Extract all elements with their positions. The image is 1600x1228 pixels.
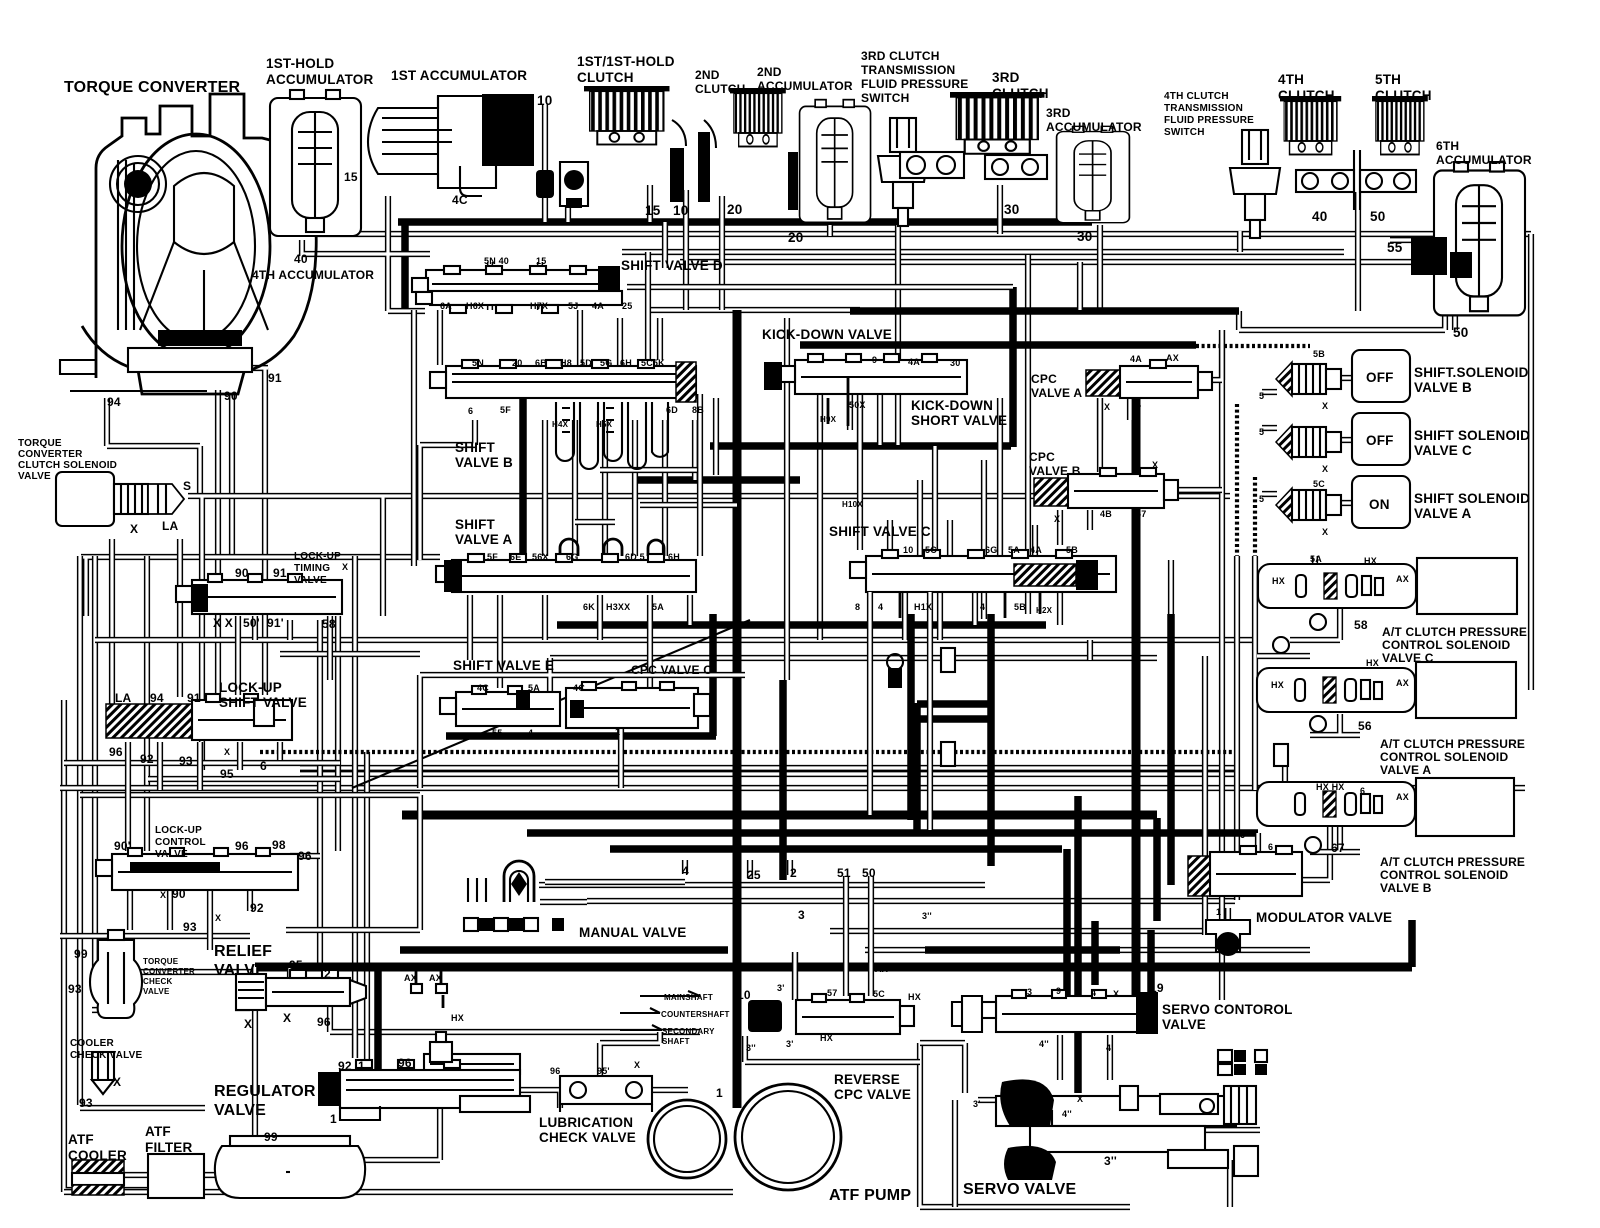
at clutch pressure control solenoid valve A box	[1416, 662, 1516, 718]
svg-text:CPC VALVE: CPC VALVE	[834, 1087, 911, 1102]
svg-text:1: 1	[716, 1086, 723, 1100]
svg-text:1: 1	[1216, 907, 1221, 917]
mainshaft arrows	[620, 991, 700, 1030]
relief valve	[236, 970, 366, 1010]
svg-text:CONTROL SOLENOID: CONTROL SOLENOID	[1380, 868, 1508, 882]
svg-text:H1X: H1X	[914, 602, 932, 612]
svg-text:LUBRICATION: LUBRICATION	[539, 1115, 633, 1130]
svg-text:94: 94	[150, 691, 164, 705]
svg-text:VALVE: VALVE	[155, 849, 188, 860]
svg-text:6A: 6A	[440, 301, 452, 311]
svg-text:2ND: 2ND	[695, 68, 720, 82]
wire thick trunk verticals	[378, 394, 523, 1078]
svg-text:X: X	[1054, 514, 1060, 524]
svg-text:91: 91	[187, 691, 201, 705]
svg-text:5B: 5B	[1014, 602, 1026, 612]
svg-text:X: X	[244, 1017, 252, 1031]
svg-text:VALVE A: VALVE A	[1414, 506, 1471, 521]
svg-text:90: 90	[172, 887, 186, 901]
at clutch pressure control solenoid valve A body	[1257, 668, 1415, 712]
svg-text:2: 2	[790, 866, 797, 880]
svg-text:4A: 4A	[1030, 545, 1042, 555]
svg-text:HX: HX	[1364, 556, 1377, 566]
svg-text:AX: AX	[1166, 353, 1179, 363]
svg-text:93: 93	[68, 982, 82, 996]
wire shift valve A drops	[470, 595, 690, 688]
svg-text:4TH ACCUMULATOR: 4TH ACCUMULATOR	[252, 268, 374, 282]
svg-text:AX: AX	[1396, 678, 1409, 688]
svg-text:TRANSMISSION: TRANSMISSION	[861, 63, 955, 77]
svg-text:91: 91	[273, 566, 287, 580]
svg-text:40: 40	[1312, 209, 1327, 224]
cpc valve C spool	[566, 682, 710, 728]
svg-text:6G: 6G	[985, 545, 997, 555]
svg-text:15: 15	[645, 203, 661, 218]
svg-text:VALVE B: VALVE B	[1414, 380, 1472, 395]
svg-text:REVERSE: REVERSE	[834, 1072, 900, 1087]
svg-text:6K: 6K	[583, 602, 595, 612]
svg-text:H10X: H10X	[842, 500, 863, 509]
svg-text:4C: 4C	[477, 683, 489, 693]
svg-text:CLUTCH SOLENOID: CLUTCH SOLENOID	[18, 460, 117, 471]
svg-text:6: 6	[468, 406, 473, 416]
svg-text:CPC VALVE C: CPC VALVE C	[631, 663, 712, 677]
svg-text:6D 5: 6D 5	[625, 552, 645, 562]
svg-text:COOLER: COOLER	[70, 1038, 115, 1049]
wire shift valve C risers	[890, 480, 1060, 640]
svg-text:3'': 3''	[746, 1043, 756, 1053]
lubrication check valve	[560, 1076, 652, 1112]
svg-text:5A: 5A	[1310, 554, 1322, 564]
svg-text:SWITCH: SWITCH	[861, 91, 910, 105]
shift valve B spool	[430, 360, 696, 402]
svg-text:X: X	[1322, 527, 1328, 537]
svg-text:X: X	[1322, 401, 1328, 411]
svg-text:10: 10	[737, 988, 751, 1002]
svg-text:4: 4	[528, 728, 533, 738]
svg-text:90': 90'	[114, 839, 131, 853]
svg-text:VALVE B: VALVE B	[1029, 464, 1081, 478]
svg-text:H4X: H4X	[552, 420, 569, 429]
svg-text:H3XX: H3XX	[606, 602, 630, 612]
atf filter	[148, 1154, 204, 1198]
svg-text:CONVERTER: CONVERTER	[18, 449, 83, 460]
wire thick trunk horizontals	[400, 311, 1258, 950]
svg-text:VALVE C: VALVE C	[1414, 443, 1472, 458]
svg-text:H6X: H6X	[466, 301, 484, 311]
svg-text:FLUID PRESSURE: FLUID PRESSURE	[1164, 115, 1254, 126]
svg-text:5J: 5J	[568, 301, 578, 311]
svg-text:4TH CLUTCH: 4TH CLUTCH	[1164, 91, 1229, 102]
svg-text:VALVE: VALVE	[214, 962, 266, 979]
svg-text:5A: 5A	[1008, 545, 1020, 555]
svg-text:91: 91	[268, 371, 282, 385]
wire valve B-A step links	[575, 470, 737, 522]
svg-text:5B: 5B	[1066, 545, 1078, 555]
svg-text:93: 93	[179, 754, 193, 768]
svg-text:6: 6	[1240, 830, 1245, 840]
svg-text:TORQUE CONVERTER: TORQUE CONVERTER	[64, 79, 240, 96]
accumulator 1st-hold	[270, 90, 361, 236]
svg-text:99: 99	[264, 1130, 278, 1144]
svg-text:SHIFT SOLENOID: SHIFT SOLENOID	[1414, 428, 1530, 443]
wire cpc connections	[1060, 330, 1352, 545]
modulator valve	[1188, 846, 1302, 956]
wire lockup region horizontals	[64, 654, 420, 930]
svg-text:H2X: H2X	[1036, 606, 1053, 615]
wire long y557 line	[81, 556, 440, 616]
svg-text:SERVO CONTOROL: SERVO CONTOROL	[1162, 1002, 1293, 1017]
svg-text:15: 15	[344, 170, 358, 184]
svg-text:VALVE B: VALVE B	[455, 455, 513, 470]
svg-text:CHECK VALVE: CHECK VALVE	[539, 1130, 636, 1145]
clutch 5th	[1372, 96, 1428, 155]
svg-text:56: 56	[1358, 719, 1372, 733]
svg-text:91': 91'	[267, 616, 284, 630]
shift solenoid valve B	[1276, 350, 1410, 402]
wire mid risers extra	[414, 252, 1100, 680]
svg-text:CLUTCH: CLUTCH	[695, 82, 746, 96]
svg-text:LOCK-UP: LOCK-UP	[294, 551, 341, 562]
torque converter check valve	[90, 930, 142, 1018]
2nd clutch piston streak	[788, 152, 798, 210]
svg-text:95': 95'	[597, 1066, 610, 1076]
torque converter clutch solenoid valve	[56, 472, 184, 526]
svg-text:5: 5	[1259, 427, 1264, 437]
svg-text:55: 55	[1387, 240, 1403, 255]
svg-text:50X: 50X	[849, 400, 866, 410]
svg-text:9: 9	[1056, 986, 1061, 996]
svg-text:5B: 5B	[1313, 349, 1325, 359]
svg-text:5F: 5F	[487, 552, 498, 562]
svg-text:5: 5	[1259, 391, 1264, 401]
svg-text:VALVE A: VALVE A	[1031, 386, 1082, 400]
svg-text:X: X	[634, 1060, 640, 1070]
svg-text:96: 96	[235, 839, 249, 853]
svg-text:ACCUMULATOR: ACCUMULATOR	[266, 72, 373, 87]
svg-text:A/T CLUTCH PRESSURE: A/T CLUTCH PRESSURE	[1380, 855, 1525, 869]
svg-text:H5X: H5X	[596, 420, 613, 429]
svg-text:4: 4	[878, 602, 883, 612]
atf pump circle 1	[648, 1100, 726, 1178]
svg-text:SECONDARY: SECONDARY	[662, 1027, 715, 1036]
svg-text:5C5K: 5C5K	[641, 358, 665, 368]
kick-down valve spool	[764, 354, 967, 394]
svg-text:X: X	[283, 1011, 291, 1025]
svg-text:30: 30	[950, 358, 960, 368]
wire diagonal	[352, 620, 750, 788]
svg-text:CLUTCH: CLUTCH	[992, 86, 1049, 101]
svg-text:OFF: OFF	[1366, 370, 1394, 385]
svg-text:SHIFT VALVE D: SHIFT VALVE D	[621, 258, 723, 273]
svg-text:COOLER: COOLER	[68, 1148, 127, 1163]
accumulator 2nd	[800, 100, 871, 223]
wire tc solenoid to lockup valves y496	[64, 496, 1230, 1192]
svg-text:30: 30	[1004, 202, 1019, 217]
svg-text:4C: 4C	[452, 193, 468, 207]
servo valve right caps	[1218, 1050, 1267, 1075]
svg-text:VALVE: VALVE	[18, 471, 51, 482]
svg-text:HX: HX	[1271, 680, 1284, 690]
accumulator 1st (horizontal with black block)	[368, 94, 534, 196]
svg-text:HX: HX	[908, 992, 921, 1002]
svg-text:VALVE A: VALVE A	[1380, 763, 1431, 777]
svg-text:92: 92	[140, 752, 154, 766]
svg-text:8B: 8B	[692, 405, 704, 415]
svg-text:ATF: ATF	[68, 1132, 94, 1147]
svg-text:X: X	[1113, 989, 1119, 999]
wire torque converter tail lines	[107, 368, 268, 700]
svg-text:X: X	[1152, 460, 1158, 470]
svg-text:3': 3'	[973, 1099, 981, 1109]
svg-text:SHORT VALVE: SHORT VALVE	[911, 413, 1007, 428]
wire thick line pressure feed y222	[398, 222, 1092, 311]
wire modulator links	[1228, 790, 1330, 938]
shift valve C spool	[850, 550, 1116, 592]
wire main-bus top horizontal runs	[315, 234, 1531, 310]
svg-text:SHIFT SOLENOID: SHIFT SOLENOID	[1414, 491, 1530, 506]
svg-text:CHECK VALVE: CHECK VALVE	[70, 1050, 143, 1061]
at clutch pressure control solenoid valve C box	[1417, 558, 1517, 614]
svg-text:4C: 4C	[573, 683, 585, 693]
svg-text:2: 2	[324, 967, 331, 981]
svg-text:4A: 4A	[1130, 354, 1142, 364]
svg-text:3RD: 3RD	[1046, 106, 1071, 120]
wire right 6th accumulator link	[1239, 240, 1445, 330]
svg-text:REGULATOR: REGULATOR	[214, 1083, 316, 1100]
svg-text:LOCK-UP: LOCK-UP	[219, 680, 282, 695]
svg-text:40: 40	[294, 252, 308, 266]
svg-text:5TH: 5TH	[1375, 72, 1401, 87]
wire manual valve line	[540, 860, 790, 902]
svg-text:6B: 6B	[535, 358, 547, 368]
svg-text:H7X: H7X	[530, 301, 548, 311]
svg-text:4B: 4B	[1100, 509, 1112, 519]
svg-text:5C: 5C	[925, 545, 937, 555]
svg-text:96: 96	[298, 849, 312, 863]
svg-text:96: 96	[550, 1066, 560, 1076]
svg-text:1ST ACCUMULATOR: 1ST ACCUMULATOR	[391, 68, 527, 83]
svg-text:4A: 4A	[592, 301, 604, 311]
svg-text:X: X	[1322, 464, 1328, 474]
svg-text:90: 90	[224, 389, 238, 403]
svg-text:92: 92	[250, 901, 264, 915]
fitting bolts near solenoid pipes	[887, 614, 1326, 853]
svg-text:TORQUE: TORQUE	[143, 957, 179, 966]
svg-text:3RD: 3RD	[992, 70, 1020, 85]
wire solenoid column verticals	[1171, 330, 1255, 1000]
svg-text:5A: 5A	[652, 602, 664, 612]
svg-text:5C: 5C	[1313, 479, 1325, 489]
svg-text:4: 4	[1091, 988, 1096, 998]
svg-text:94: 94	[107, 395, 121, 409]
svg-text:3RD CLUTCH: 3RD CLUTCH	[861, 49, 940, 63]
svg-text:6: 6	[1360, 786, 1365, 796]
svg-text:55: 55	[492, 728, 502, 738]
svg-text:AX: AX	[875, 964, 888, 974]
svg-text:SHIFT: SHIFT	[455, 440, 496, 455]
atf cooler	[72, 1160, 124, 1195]
svg-text:TRANSMISSION: TRANSMISSION	[1164, 103, 1243, 114]
clutch 1st/1st-hold	[584, 86, 670, 145]
svg-text:8: 8	[855, 602, 860, 612]
svg-text:4: 4	[980, 602, 985, 612]
svg-text:VALVE: VALVE	[143, 987, 170, 996]
svg-text:AX: AX	[1396, 792, 1409, 802]
kick-down short valve marks	[828, 376, 848, 426]
servo valve	[996, 1079, 1258, 1180]
svg-text:10: 10	[673, 203, 688, 218]
svg-text:SWITCH: SWITCH	[1164, 127, 1205, 138]
svg-text:1ST-HOLD: 1ST-HOLD	[266, 56, 334, 71]
svg-text:57: 57	[1136, 509, 1146, 519]
servo control valve	[952, 990, 1158, 1034]
svg-text:92: 92	[338, 1059, 352, 1073]
svg-text:2ND: 2ND	[757, 65, 782, 79]
svg-text:4: 4	[1136, 400, 1141, 410]
svg-text:VALVE B: VALVE B	[1380, 881, 1432, 895]
reverse cpc valve	[748, 994, 914, 1034]
svg-text:ACCUMULATOR: ACCUMULATOR	[757, 79, 853, 93]
svg-text:SHIFT.SOLENOID: SHIFT.SOLENOID	[1414, 365, 1529, 380]
cooler check valve	[92, 1052, 114, 1094]
accumulator 3rd	[1057, 126, 1130, 222]
svg-text:ATF PUMP: ATF PUMP	[829, 1187, 911, 1204]
1st clutch piston dark streaks	[670, 148, 684, 202]
oil pan 99	[215, 1136, 365, 1198]
wire lockup valve links	[128, 616, 330, 950]
svg-text:AX: AX	[1396, 574, 1409, 584]
svg-text:X: X	[215, 913, 221, 923]
svg-text:SHIFT: SHIFT	[455, 517, 496, 532]
svg-text:LOCK-UP: LOCK-UP	[155, 825, 202, 836]
pressure switch 4th clutch	[1230, 130, 1280, 238]
svg-text:4': 4'	[1106, 1043, 1114, 1053]
wire clutch feed drops	[302, 104, 1531, 690]
svg-text:CONVERTER: CONVERTER	[143, 967, 195, 976]
wire at solenoid links	[1257, 556, 1360, 852]
svg-text:5C: 5C	[873, 989, 885, 999]
svg-text:COUNTERSHAFT: COUNTERSHAFT	[661, 1010, 730, 1019]
wire servo valve surround	[955, 1035, 1260, 1207]
svg-text:25: 25	[747, 868, 761, 882]
svg-text:X X: X X	[213, 616, 233, 630]
svg-text:57: 57	[827, 988, 837, 998]
svg-text:1: 1	[615, 727, 620, 737]
svg-text:HX: HX	[451, 1013, 464, 1023]
svg-text:ATF: ATF	[145, 1124, 171, 1139]
svg-text:CLUTCH: CLUTCH	[1278, 88, 1335, 103]
svg-text:A/T CLUTCH PRESSURE: A/T CLUTCH PRESSURE	[1382, 625, 1527, 639]
svg-text:X: X	[160, 890, 166, 900]
shift valve B springs	[556, 402, 668, 469]
svg-text:CHECK: CHECK	[143, 977, 172, 986]
svg-text:20: 20	[788, 230, 803, 245]
regulator valve	[318, 1032, 530, 1120]
svg-text:93: 93	[183, 920, 197, 934]
wire hatched pipes	[260, 346, 1310, 752]
clutch 3rd	[950, 92, 1045, 154]
svg-text:6: 6	[1268, 842, 1273, 852]
svg-text:CLUTCH: CLUTCH	[577, 70, 634, 85]
svg-text:LA: LA	[115, 691, 132, 705]
at clutch pressure control solenoid valve B body	[1257, 782, 1415, 826]
svg-text:6: 6	[260, 759, 267, 773]
shift valve C lower pins	[900, 592, 1040, 618]
svg-text:4: 4	[682, 864, 689, 878]
svg-text:HX HX: HX HX	[1316, 782, 1345, 792]
svg-text:58: 58	[322, 617, 336, 631]
svg-text:FLUID PRESSURE: FLUID PRESSURE	[861, 77, 968, 91]
wire kick-down drops	[820, 376, 898, 445]
svg-text:9: 9	[872, 355, 877, 365]
svg-text:3: 3	[798, 908, 805, 922]
svg-text:X: X	[342, 562, 348, 572]
shift valve A spool	[436, 554, 696, 592]
svg-text:VALVE: VALVE	[1162, 1017, 1206, 1032]
svg-text:51: 51	[837, 866, 851, 880]
wire middle long horizontals	[60, 640, 1525, 1207]
svg-text:HX: HX	[1366, 658, 1379, 668]
svg-text:19: 19	[1150, 981, 1164, 995]
svg-text:ACCUMULATOR: ACCUMULATOR	[1436, 153, 1532, 167]
4th/5th clutch lower valves	[1296, 150, 1416, 210]
cpc valve B	[1034, 468, 1178, 508]
svg-text:MANUAL VALVE: MANUAL VALVE	[579, 925, 686, 940]
svg-text:1: 1	[358, 1059, 365, 1073]
at clutch pressure control solenoid valve B box	[1416, 778, 1514, 836]
svg-text:CONTROL SOLENOID: CONTROL SOLENOID	[1382, 638, 1510, 652]
svg-text:96: 96	[317, 1015, 331, 1029]
svg-text:67: 67	[1331, 841, 1345, 855]
svg-text:99: 99	[74, 947, 88, 961]
svg-text:96: 96	[109, 745, 123, 759]
svg-text:KICK-DOWN: KICK-DOWN	[911, 398, 993, 413]
svg-text:MAINSHAFT: MAINSHAFT	[664, 993, 713, 1002]
lock-up timing valve	[176, 574, 342, 614]
svg-text:50: 50	[862, 866, 876, 880]
svg-text:3'': 3''	[1104, 1154, 1117, 1168]
2nd clutch lower valve	[900, 152, 964, 178]
svg-text:1ST/1ST-HOLD: 1ST/1ST-HOLD	[577, 54, 675, 69]
svg-text:5N: 5N	[472, 358, 484, 368]
svg-text:4'': 4''	[1039, 1039, 1049, 1049]
svg-text:FILTER: FILTER	[145, 1140, 192, 1155]
shift valve E spool	[440, 686, 560, 726]
svg-text:X: X	[463, 732, 469, 742]
wire shift valve D risers	[440, 222, 1013, 365]
svg-text:3': 3'	[786, 1039, 794, 1049]
wire valve E frame	[420, 658, 745, 788]
shift valve D upper spool	[412, 266, 620, 302]
svg-text:30: 30	[1077, 229, 1092, 244]
svg-text:90: 90	[235, 566, 249, 580]
wire check valve region lines	[60, 936, 255, 1108]
svg-text:OFF: OFF	[1366, 433, 1394, 448]
svg-text:VALVE: VALVE	[214, 1102, 266, 1119]
svg-text:HX: HX	[820, 1033, 833, 1043]
svg-text:58: 58	[1354, 618, 1368, 632]
svg-text:CPC: CPC	[1031, 372, 1057, 386]
shift solenoid valve A	[1276, 476, 1410, 528]
svg-text:50: 50	[1453, 325, 1468, 340]
svg-text:KICK-DOWN VALVE: KICK-DOWN VALVE	[762, 327, 892, 342]
wire tc bottom line	[70, 390, 207, 392]
clutch 4th	[1280, 96, 1341, 155]
shift solenoid valve C	[1276, 413, 1410, 465]
svg-text:TIMING: TIMING	[294, 563, 330, 574]
svg-text:50': 50'	[243, 616, 260, 630]
